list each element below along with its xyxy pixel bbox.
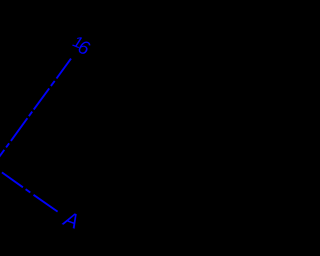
wire: dashed segment line to A, dash 2 — [26, 189, 31, 192]
wire: dashed segment line 16, dash 3 — [34, 88, 50, 109]
wire: dashed segment line to A, dash 1 — [2, 172, 23, 187]
wire: dashed segment line 16, dash 7 — [0, 150, 4, 157]
wire: dashed segment line 16, dash 2 — [51, 81, 55, 86]
wire: dashed segment line 16, dash 6 — [6, 143, 9, 147]
wire: dashed segment line 16, dash 4 — [29, 112, 32, 117]
wire: dashed segment line to A, dash 3 — [34, 195, 58, 212]
svg-text:A: A — [59, 207, 82, 234]
wire: dashed segment line 16, dash 1 — [57, 59, 72, 79]
wire: dashed segment line 16, dash 5 — [11, 118, 28, 141]
